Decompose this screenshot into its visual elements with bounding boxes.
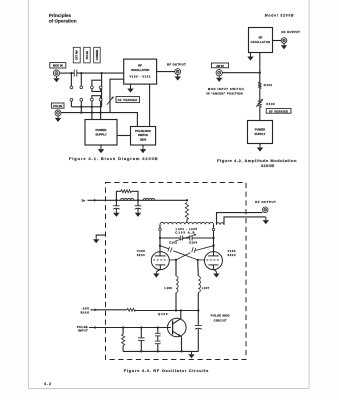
svg-text:C103 A,B: C103 A,B xyxy=(175,231,195,235)
svg-text:Figure 4-2. Amplitude Modulat: Figure 4-2. Amplitude Modulation xyxy=(217,158,297,163)
wire AM IN jack to main wire xyxy=(222,72,259,74)
svg-text:CARRIER: CARRIER xyxy=(96,50,99,61)
tube V100 plate xyxy=(159,246,161,256)
page bottom edge xyxy=(29,388,310,390)
node B+ junction 2 xyxy=(137,199,139,201)
ground below C105 xyxy=(115,211,117,213)
switch stub bar xyxy=(92,80,102,86)
tank left side wire xyxy=(159,224,161,246)
ground below AM IN jack xyxy=(218,76,220,78)
switch contact row2 d xyxy=(99,98,102,101)
link lead upper to RF output xyxy=(217,213,263,225)
pulse bus wire y112.6 xyxy=(61,112,110,114)
svg-text:AM IN: AM IN xyxy=(216,64,224,68)
switch drop wire 2 xyxy=(80,73,82,86)
node on top wire xyxy=(70,72,72,74)
tank right band contact xyxy=(212,228,215,231)
ground below RF oscillator box xyxy=(130,84,132,87)
ground arrow on bus xyxy=(191,351,193,352)
svg-text:Figure 4-3. RF Oscillator Cir: Figure 4-3. RF Oscillator Circuits xyxy=(124,368,209,373)
variable capacitor C103A xyxy=(179,236,181,241)
transistor Q100 emitter xyxy=(173,331,182,351)
ground below V101 xyxy=(215,272,217,274)
svg-text:CIRCUIT: CIRCUIT xyxy=(214,318,227,322)
svg-text:OSCILLATOR: OSCILLATOR xyxy=(131,68,150,72)
bottom bus wire xyxy=(123,350,198,352)
ground below V100 xyxy=(155,272,157,274)
svg-text:PULSE MOD: PULSE MOD xyxy=(211,314,230,318)
capacitor C (dc block) xyxy=(73,70,75,77)
resistor R102 xyxy=(258,82,261,89)
tube V101 cathode lead to ground xyxy=(213,265,216,272)
tank coil L101-L105 (top edge) xyxy=(160,222,214,224)
svg-text:EXT AM: EXT AM xyxy=(76,50,79,59)
svg-text:C104: C104 xyxy=(189,240,197,244)
switch lower drop 2 xyxy=(80,101,82,113)
svg-text:L107: L107 xyxy=(202,286,210,290)
switch shorting bar row2 xyxy=(92,96,101,99)
wire RF osc to output jack xyxy=(157,71,175,73)
jack J101 PULSE xyxy=(55,110,61,116)
bus wire y107 xyxy=(71,106,101,108)
tube V101 envelope xyxy=(204,252,222,270)
jack RF OUTPUT fig4-1 xyxy=(175,69,181,75)
switch label box 1 (rotated EXT AM) xyxy=(73,47,80,63)
tank bottom edge middle segment xyxy=(183,237,190,239)
wire cap to RF oscillator box xyxy=(77,72,124,74)
label box RF VERNIER fig4-1 xyxy=(116,97,140,103)
node B+ junction 1 xyxy=(115,199,117,201)
tank bottom edge right segment xyxy=(192,237,213,239)
dropping resistor to tank center tap xyxy=(185,203,188,220)
bias resistor R xyxy=(127,308,135,311)
RF vernier pot wire xyxy=(110,79,124,112)
cross coupling wire C102 (left plate to right grid) xyxy=(160,246,169,249)
node tank bottom right xyxy=(212,237,214,239)
svg-text:B+: B+ xyxy=(82,199,86,203)
block RF OSCILLATOR V100-V101 xyxy=(124,59,157,84)
base capacitor to bus xyxy=(140,328,142,338)
svg-text:RF VERNIER: RF VERNIER xyxy=(269,110,288,113)
tube V100 grid lead xyxy=(169,259,176,261)
switch right column wire xyxy=(101,73,103,107)
node bus b xyxy=(157,350,159,352)
switch contact row2 a xyxy=(70,98,73,101)
ground below RF output jack fig4-2 xyxy=(283,43,285,45)
potentiometer R103 xyxy=(258,101,261,108)
switch contact row2 c xyxy=(91,98,94,101)
ground arrow at link lower lead xyxy=(265,217,267,218)
bias feed wire with arrow xyxy=(91,309,128,311)
svg-text:Principles: Principles xyxy=(49,13,72,18)
wire from MOD IN jack xyxy=(60,72,74,74)
tube V100 cathode lead to ground xyxy=(157,265,161,272)
svg-text:RF: RF xyxy=(259,35,263,39)
svg-text:RF OUTPUT: RF OUTPUT xyxy=(167,63,186,67)
svg-text:OSCILLATOR: OSCILLATOR xyxy=(251,40,271,44)
page right edge xyxy=(308,0,310,389)
bias wire to collector node xyxy=(134,309,136,312)
tank bottom edge left segment xyxy=(160,237,180,239)
pulse input wire with arrow xyxy=(89,327,171,329)
switch contact row1 b xyxy=(80,86,83,89)
svg-text:4-2: 4-2 xyxy=(44,382,52,386)
ground below power supply fig4-2 xyxy=(259,144,261,146)
svg-text:R102: R102 xyxy=(264,83,273,87)
switch lower drop 1 xyxy=(70,101,72,107)
block RF OSCILLATOR fig4-2 xyxy=(249,28,273,53)
output link coil L108 xyxy=(217,223,225,225)
node L106 on collector line xyxy=(175,309,177,311)
node tank left plate tap xyxy=(159,245,161,247)
node bus1 a xyxy=(80,106,82,108)
block POWER SUPPLY fig4-1 xyxy=(85,120,117,146)
jack J100 MOD IN xyxy=(53,70,59,76)
ground below pulse mod switch xyxy=(142,145,144,147)
grid choke L107 xyxy=(197,260,200,276)
svg-text:Q100: Q100 xyxy=(158,312,168,316)
svg-text:PULSE: PULSE xyxy=(53,104,62,108)
node collector xyxy=(180,309,182,311)
emitter bypass capacitor on right branch xyxy=(197,311,199,325)
svg-text:PULSE MOD: PULSE MOD xyxy=(135,129,151,133)
node base network c xyxy=(157,326,159,328)
tank left band contact xyxy=(159,228,162,231)
variable capacitor C103B xyxy=(189,236,191,241)
block PULSE MOD SWITCH Q100 xyxy=(131,127,156,146)
tube V100 grid (dashed) xyxy=(153,259,167,261)
bypass capacitor C105 to ground xyxy=(115,200,117,206)
tube V101 grid lead xyxy=(198,259,205,261)
dashed enclosure box xyxy=(106,183,247,360)
node bus a xyxy=(140,350,142,352)
switch contact row1 a xyxy=(70,86,73,89)
jack RF OUTPUT fig4-2 xyxy=(281,38,287,44)
grid choke L106 xyxy=(175,260,177,276)
svg-text:of Operation: of Operation xyxy=(49,18,77,23)
choke L (parallel bottom path) xyxy=(121,198,134,200)
switch lower drop 4 xyxy=(100,101,102,119)
cross coupling wire C104 (right plate to left grid) xyxy=(195,246,213,251)
transistor Q100 base bar xyxy=(172,321,174,335)
svg-text:L106: L106 xyxy=(164,286,172,290)
svg-text:RF: RF xyxy=(138,63,142,67)
svg-text:SWITCH: SWITCH xyxy=(138,133,148,137)
node base network a xyxy=(122,326,124,328)
tube V100 cathode xyxy=(155,264,165,266)
svg-text:SUPPLY: SUPPLY xyxy=(255,132,266,136)
node tank bottom left xyxy=(159,237,161,239)
switch contact row1 c xyxy=(91,86,94,89)
ground below C106 xyxy=(137,211,139,213)
node AM junction xyxy=(259,72,261,74)
base double capacitor to bus xyxy=(157,328,159,333)
node on top wire 2 xyxy=(80,72,82,74)
switch contact row1 d xyxy=(99,86,102,89)
jack AM IN xyxy=(216,70,222,76)
wire RF osc to output jack fig4-2 xyxy=(273,40,282,42)
svg-text:POWER: POWER xyxy=(255,127,266,131)
ground below RF output jack fig4-1 xyxy=(177,75,179,77)
node B+ to tank tap xyxy=(186,199,188,201)
node left grid xyxy=(175,259,177,261)
transistor Q100 envelope xyxy=(168,318,187,337)
svg-text:RF VERNIER: RF VERNIER xyxy=(118,98,138,102)
wire R103 to power supply xyxy=(259,108,261,121)
node bus1 b xyxy=(91,106,93,108)
node right branch top xyxy=(197,309,199,311)
base resistor to bus xyxy=(122,328,124,335)
link lead lower to ground xyxy=(224,217,266,225)
switch label box 3 (rotated CARRIER) xyxy=(94,47,101,63)
svg-text:Q100: Q100 xyxy=(140,138,147,142)
ground below PULSE jack xyxy=(57,116,59,118)
node base network b xyxy=(140,326,142,328)
chassis ground on enclosure left edge xyxy=(96,235,105,237)
svg-text:PULSE: PULSE xyxy=(86,51,89,60)
node bus emitter xyxy=(181,350,183,352)
svg-text:R103: R103 xyxy=(266,102,275,106)
block POWER SUPPLY fig4-2 xyxy=(248,121,273,144)
B+ feed wire with arrow xyxy=(88,199,188,201)
switch label box 2 (rotated PULSE) xyxy=(84,47,91,63)
svg-text:3200B: 3200B xyxy=(261,163,275,168)
label box PULSE xyxy=(52,103,65,108)
svg-text:RF OUTPUT: RF OUTPUT xyxy=(255,200,276,204)
jack RF OUTPUT fig4-3 xyxy=(262,207,268,213)
svg-text:IN “AM/ON” POSITION: IN “AM/ON” POSITION xyxy=(206,91,243,95)
choke L2 on B+ line xyxy=(143,198,154,200)
variable capacitor arrow C103 xyxy=(175,235,196,242)
svg-text:INPUT: INPUT xyxy=(78,329,88,333)
page left edge xyxy=(28,0,30,389)
svg-text:V100 - V101: V100 - V101 xyxy=(130,75,152,79)
svg-text:Figure 4-1. Block Diagram 320: Figure 4-1. Block Diagram 3200B xyxy=(69,156,159,161)
svg-text:MOD INPUT SWITCH: MOD INPUT SWITCH xyxy=(208,87,244,91)
svg-text:MOD IN: MOD IN xyxy=(53,64,63,68)
wire power supply to pulse mod switch xyxy=(117,135,131,137)
ground below power supply fig4-1 xyxy=(100,145,102,147)
svg-text:RF OUTPUT: RF OUTPUT xyxy=(282,30,301,34)
node on top wire 3 xyxy=(100,72,102,74)
node pulse bus b xyxy=(91,111,93,113)
wire RF osc to pulse mod switch xyxy=(149,84,151,126)
wire R102 to R103 xyxy=(259,89,261,101)
node pulse bus c xyxy=(99,111,101,113)
svg-text:C102: C102 xyxy=(169,240,177,244)
tube V101 plate xyxy=(213,246,215,256)
main vertical wire fig4-2 upper xyxy=(259,53,261,83)
tube V100 envelope xyxy=(151,252,169,270)
svg-text:6224: 6224 xyxy=(228,253,236,257)
parasitic resistor R104 (parallel top path) xyxy=(116,191,121,200)
ground below MOD IN jack xyxy=(56,76,58,78)
svg-text:6224: 6224 xyxy=(137,253,145,257)
svg-text:Model 3200B: Model 3200B xyxy=(265,14,295,18)
node pulse bus a xyxy=(80,111,82,113)
label box RF VERNIER fig4-2 xyxy=(266,109,291,114)
tube V101 cathode xyxy=(208,264,218,266)
switch drop wire 1 xyxy=(70,73,72,86)
switch lower drop 3 xyxy=(91,101,93,119)
transistor Q100 collector xyxy=(173,311,181,325)
label box AM IN xyxy=(211,63,228,68)
node right grid xyxy=(197,259,199,261)
wire pulse bus to pulse mod switch xyxy=(110,113,137,127)
tank right side wire xyxy=(213,224,215,246)
potentiometer arrow R (RF VERNIER) xyxy=(107,97,113,105)
ground at RF osc box bottom fig4-2 xyxy=(250,53,252,55)
figure 4-1 label box MOD IN xyxy=(50,63,66,68)
svg-text:POWER: POWER xyxy=(96,128,108,132)
switch shorting bar row1 xyxy=(92,89,101,92)
switch contact row2 b xyxy=(80,98,83,101)
svg-text:SUPPLY: SUPPLY xyxy=(95,133,106,137)
node tank right plate tap xyxy=(212,245,214,247)
svg-text:BIAS: BIAS xyxy=(81,310,90,314)
bypass capacitor C106 to ground xyxy=(137,200,139,206)
tube V101 grid (dashed) xyxy=(206,259,220,261)
